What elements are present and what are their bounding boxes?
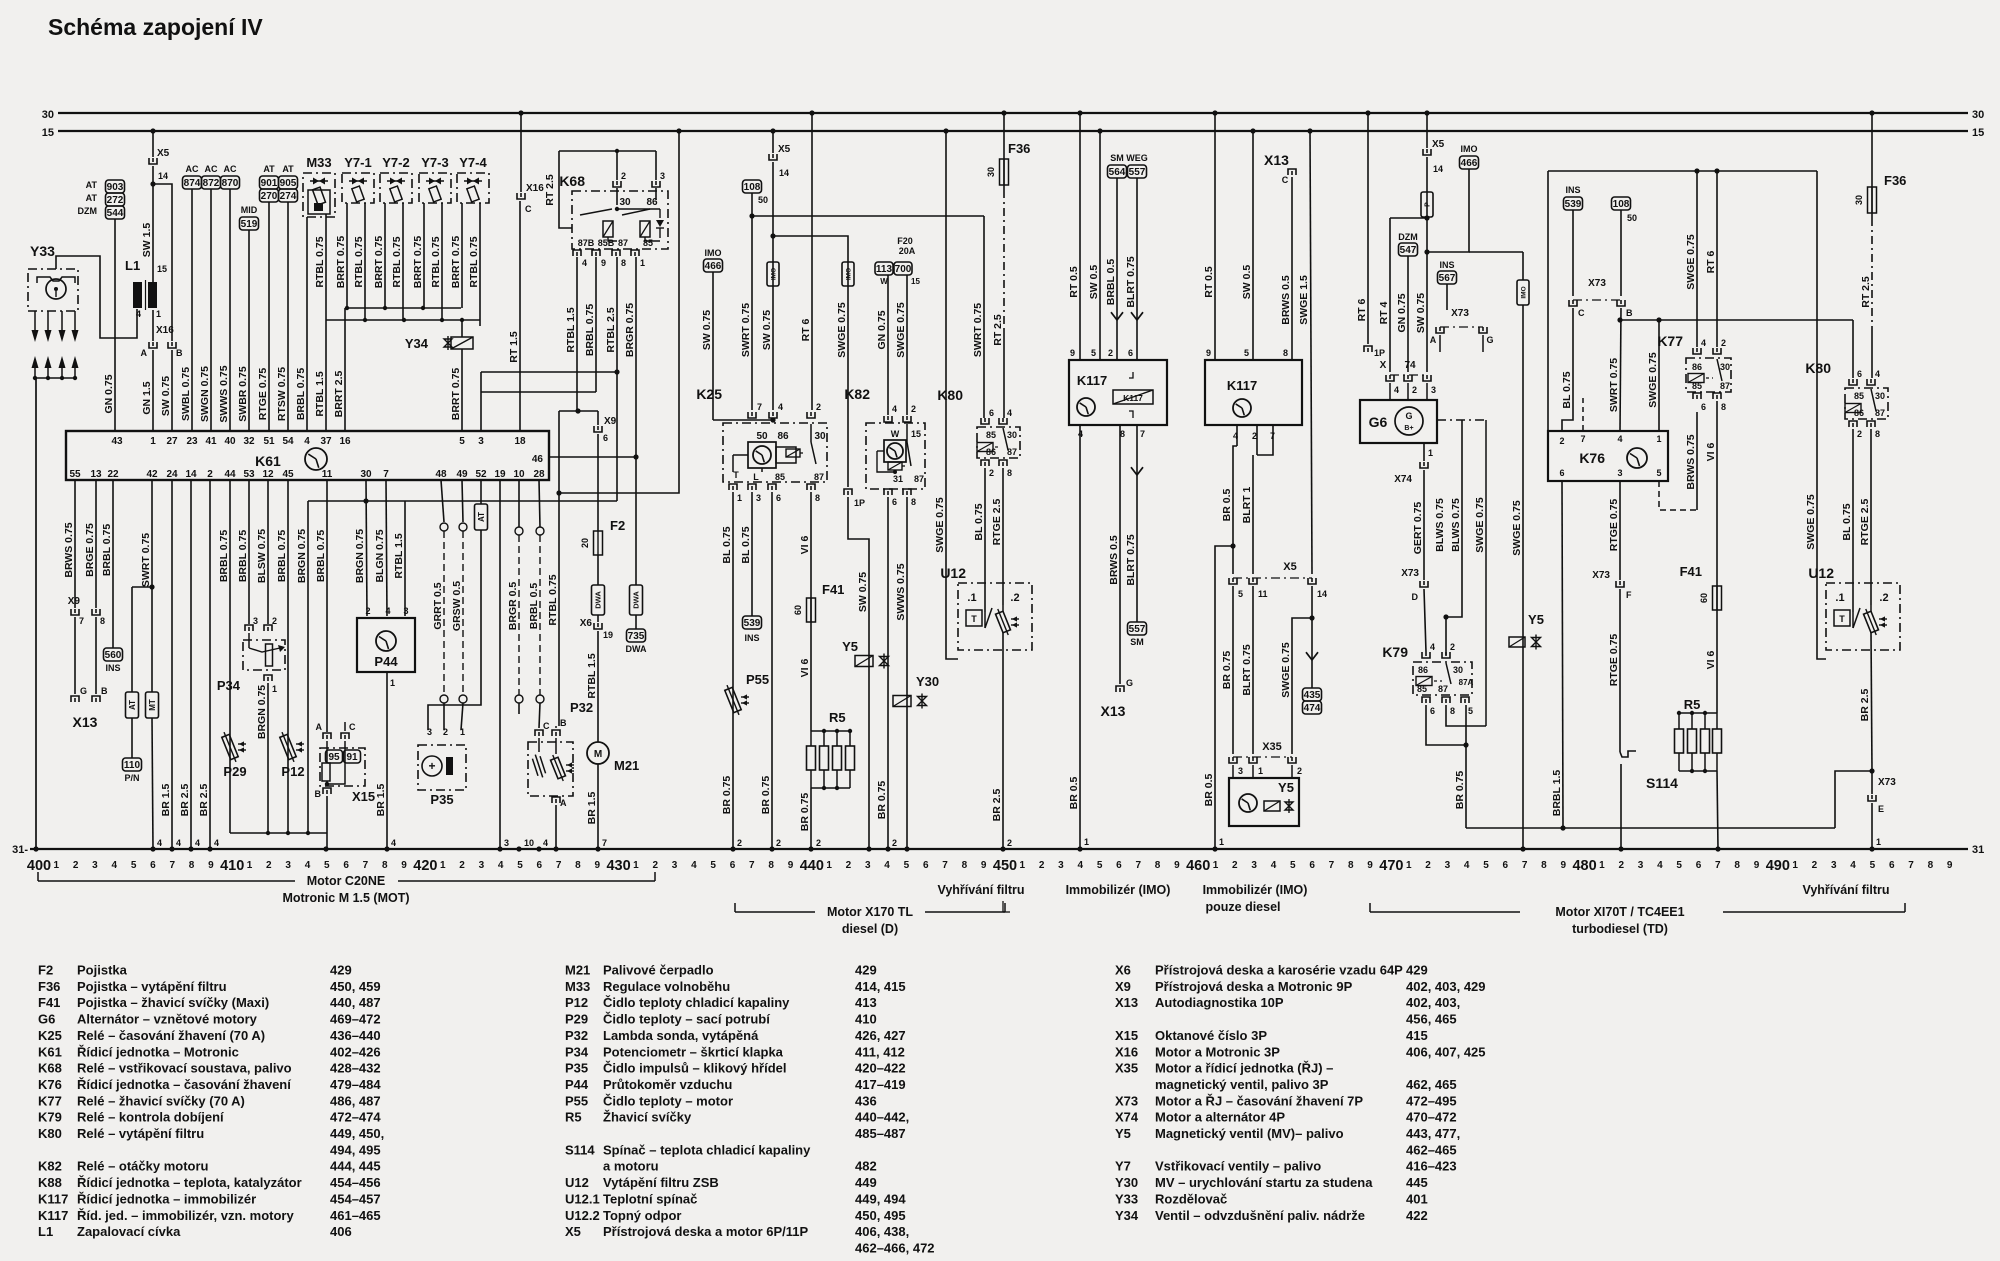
svg-text:8: 8 (1348, 860, 1354, 871)
svg-text:Relé – otáčky motoru: Relé – otáčky motoru (77, 1159, 209, 1174)
svg-text:8: 8 (189, 860, 195, 871)
svg-text:X73: X73 (1588, 278, 1606, 289)
svg-text:494, 495: 494, 495 (330, 1142, 381, 1157)
svg-text:7: 7 (1908, 860, 1914, 871)
svg-text:RTBL 1.5: RTBL 1.5 (586, 653, 598, 698)
svg-text:53: 53 (243, 469, 255, 480)
wire SWGE 0.75 through Y5 to track 477 (1522, 305, 1524, 849)
svg-text:A: A (1430, 335, 1437, 345)
svg-text:87: 87 (1875, 408, 1885, 418)
svg-text:450: 450 (993, 858, 1017, 874)
svg-text:BLGN 0.75: BLGN 0.75 (374, 529, 386, 582)
svg-text:1: 1 (1020, 860, 1026, 871)
svg-text:2: 2 (989, 468, 994, 478)
svg-text:Motor X170 TL: Motor X170 TL (827, 905, 913, 919)
svg-text:4: 4 (385, 606, 390, 616)
wire P32 A to track 427 (555, 805, 557, 849)
svg-text:9: 9 (788, 860, 794, 871)
svg-text:AC: AC (205, 164, 218, 174)
svg-text:416–423: 416–423 (1406, 1159, 1457, 1174)
svg-text:Y5: Y5 (1528, 612, 1544, 627)
svg-text:2: 2 (737, 838, 742, 848)
svg-text:Y7-4: Y7-4 (459, 155, 487, 170)
svg-text:406: 406 (330, 1224, 352, 1239)
svg-text:462–466, 472: 462–466, 472 (855, 1240, 935, 1255)
svg-text:54: 54 (282, 436, 294, 447)
svg-text:K80: K80 (937, 387, 963, 403)
svg-text:K117: K117 (1227, 378, 1257, 393)
svg-text:4: 4 (1430, 642, 1435, 652)
svg-text:P29: P29 (565, 1012, 588, 1027)
svg-text:BR 0.75: BR 0.75 (1221, 651, 1233, 690)
svg-text:50: 50 (758, 195, 768, 205)
svg-text:9: 9 (1367, 860, 1373, 871)
svg-text:4: 4 (214, 838, 219, 848)
svg-text:AT: AT (128, 700, 137, 710)
wire SWGE 1.5 bus15 to X5 (1310, 131, 1312, 574)
svg-text:C: C (525, 204, 532, 214)
svg-text:8: 8 (621, 258, 626, 268)
svg-text:SWGE 0.75: SWGE 0.75 (1647, 352, 1659, 408)
svg-text:7: 7 (757, 402, 762, 412)
svg-text:SWRT 0.75: SWRT 0.75 (740, 303, 752, 357)
svg-text:RTBL 0.75: RTBL 0.75 (468, 236, 480, 287)
node 108 50 left (743, 180, 762, 193)
svg-text:5: 5 (459, 436, 465, 447)
node DWA box left (597, 555, 599, 585)
svg-text:5: 5 (1468, 706, 1473, 716)
svg-text:95: 95 (328, 752, 340, 763)
connector X16 C (520, 113, 522, 192)
svg-text:3: 3 (1431, 385, 1436, 395)
svg-text:420–422: 420–422 (855, 1061, 906, 1076)
wire 108 to X73 B (1620, 210, 1622, 296)
svg-text:9: 9 (601, 258, 606, 268)
svg-text:X5: X5 (1432, 139, 1445, 150)
svg-text:87A: 87A (1459, 678, 1474, 687)
svg-text:DZM: DZM (1398, 232, 1418, 242)
svg-text:5: 5 (1483, 860, 1489, 871)
svg-text:Autodiagnostika 10P: Autodiagnostika 10P (1155, 995, 1284, 1010)
svg-text:6: 6 (537, 860, 543, 871)
svg-text:L1: L1 (38, 1224, 53, 1239)
connector X5 mid (772, 131, 774, 153)
svg-text:X5: X5 (565, 1224, 581, 1239)
svg-text:6: 6 (150, 860, 156, 871)
svg-text:8: 8 (382, 860, 388, 871)
svg-text:X35: X35 (1262, 741, 1282, 753)
svg-text:A: A (560, 798, 567, 808)
svg-text:AC: AC (186, 164, 199, 174)
svg-text:1: 1 (1258, 766, 1263, 776)
svg-text:Vyhřívání filtru: Vyhřívání filtru (1802, 883, 1889, 897)
net 31 ground bus (30, 848, 1968, 850)
svg-text:Motronic M 1.5 (MOT): Motronic M 1.5 (MOT) (282, 891, 409, 905)
svg-text:BRRT 0.75: BRRT 0.75 (450, 368, 462, 421)
svg-text:87: 87 (914, 474, 924, 484)
svg-text:410: 410 (855, 1012, 877, 1027)
wire rail 493 to bus 15 (559, 131, 679, 493)
svg-text:16: 16 (339, 436, 351, 447)
svg-text:4: 4 (1657, 860, 1663, 871)
svg-text:547: 547 (1400, 245, 1417, 256)
svg-text:Motor XI70T / TC4EE1: Motor XI70T / TC4EE1 (1555, 905, 1684, 919)
svg-text:SWBR 0.75: SWBR 0.75 (237, 366, 249, 422)
svg-text:+: + (428, 759, 435, 773)
svg-text:14: 14 (158, 171, 168, 181)
svg-text:X73: X73 (1401, 568, 1419, 579)
svg-text:415: 415 (1406, 1028, 1428, 1043)
svg-text:Rozdělovač: Rozdělovač (1155, 1191, 1227, 1206)
svg-text:K76: K76 (1579, 450, 1605, 466)
svg-text:450, 459: 450, 459 (330, 979, 381, 994)
svg-text:A: A (141, 348, 148, 358)
svg-text:IMO: IMO (845, 268, 852, 280)
wire branch 14 to X16 B (153, 184, 172, 341)
svg-text:P55: P55 (746, 672, 769, 687)
svg-text:2: 2 (459, 860, 465, 871)
wire injector RTBL bus (326, 319, 480, 321)
svg-text:WEG: WEG (1126, 153, 1148, 163)
svg-text:450, 495: 450, 495 (855, 1208, 906, 1223)
svg-text:5: 5 (324, 860, 330, 871)
svg-text:9: 9 (208, 860, 214, 871)
wire BRRT 2.5 bus to K61 pin 16 (344, 308, 346, 431)
svg-text:P35: P35 (565, 1061, 588, 1076)
svg-text:SM: SM (1110, 153, 1124, 163)
svg-text:GERT 0.75: GERT 0.75 (1412, 502, 1424, 555)
svg-text:G: G (80, 686, 87, 696)
svg-text:9: 9 (1947, 860, 1953, 871)
svg-text:86: 86 (1692, 362, 1702, 372)
svg-text:43: 43 (111, 436, 123, 447)
svg-text:U12: U12 (940, 565, 966, 581)
svg-text:Spínač – teplota chladicí kapa: Spínač – teplota chladicí kapaliny (603, 1142, 811, 1157)
svg-text:85: 85 (1417, 684, 1427, 694)
svg-text:K25: K25 (696, 386, 722, 402)
svg-text:272: 272 (107, 195, 124, 206)
svg-text:14: 14 (1317, 589, 1327, 599)
svg-text:564: 564 (1109, 167, 1126, 178)
svg-text:430: 430 (606, 858, 630, 874)
pin K68-8 wire RTBL 2.5 (612, 250, 620, 256)
wire K61 pin 52 through AT box (480, 480, 482, 504)
svg-text:8: 8 (1875, 429, 1880, 439)
svg-text:Topný odpor: Topný odpor (603, 1208, 681, 1223)
svg-text:410: 410 (220, 858, 244, 874)
svg-text:.1: .1 (1835, 592, 1844, 604)
svg-text:BRBL 0.75: BRBL 0.75 (237, 530, 249, 582)
svg-text:6: 6 (1889, 860, 1895, 871)
svg-text:BR 0.5: BR 0.5 (1068, 777, 1080, 810)
svg-text:1: 1 (1599, 860, 1605, 871)
svg-text:GN 1.5: GN 1.5 (141, 381, 153, 414)
svg-text:7: 7 (363, 860, 369, 871)
svg-text:454–457: 454–457 (330, 1191, 381, 1206)
svg-text:Pojistka: Pojistka (77, 963, 128, 978)
wire K61 pin 28 shielded BRBL (539, 480, 540, 527)
svg-text:2: 2 (1039, 860, 1045, 871)
svg-text:4: 4 (884, 860, 890, 871)
svg-text:P12: P12 (281, 764, 304, 779)
wire BR 1.5 K61 pin 24 (171, 480, 173, 849)
svg-text:406, 438,: 406, 438, (855, 1224, 909, 1239)
svg-text:435: 435 (1304, 690, 1321, 701)
svg-text:BLSW 0.75: BLSW 0.75 (256, 529, 268, 583)
svg-text:BLRT 0.75: BLRT 0.75 (1241, 644, 1253, 696)
svg-text:486, 487: 486, 487 (330, 1093, 381, 1108)
svg-text:Motor a ŘJ – časování žhavení: Motor a ŘJ – časování žhavení 7P (1155, 1093, 1363, 1108)
svg-text:1: 1 (633, 860, 639, 871)
svg-text:W: W (891, 429, 900, 439)
svg-text:15: 15 (157, 264, 167, 274)
svg-text:BRGR 0.5: BRGR 0.5 (507, 582, 519, 631)
svg-text:RTBL 2.5: RTBL 2.5 (605, 307, 617, 352)
svg-text:BL 0.75: BL 0.75 (721, 526, 733, 563)
wire BLSW 0.75 K61 pin 12 to P34 (267, 480, 269, 624)
svg-text:INS: INS (105, 663, 120, 673)
svg-text:Řídicí jednotka – Motronic: Řídicí jednotka – Motronic (77, 1044, 239, 1059)
svg-text:RTGE 2.5: RTGE 2.5 (1859, 499, 1871, 546)
temperature sensor P29 (220, 731, 239, 764)
svg-text:6: 6 (1701, 402, 1706, 412)
svg-text:GN 0.75: GN 0.75 (876, 310, 888, 349)
svg-text:Přístrojová deska a Motronic 9: Přístrojová deska a Motronic 9P (1155, 979, 1353, 994)
svg-text:31: 31 (1972, 844, 1984, 856)
svg-text:P34: P34 (565, 1044, 589, 1059)
svg-text:Zapalovací cívka: Zapalovací cívka (77, 1224, 181, 1239)
svg-text:55: 55 (69, 469, 81, 480)
node IMO tag on wire 773 (767, 262, 779, 286)
svg-text:3: 3 (660, 171, 665, 181)
svg-text:108: 108 (1613, 199, 1630, 210)
svg-text:SW 1.5: SW 1.5 (141, 223, 153, 258)
svg-text:RT 1.5: RT 1.5 (508, 331, 520, 363)
svg-text:87: 87 (1720, 381, 1730, 391)
svg-text:Y5: Y5 (1278, 780, 1294, 795)
svg-text:7: 7 (1580, 434, 1585, 444)
immobilizer unit K117 (1069, 360, 1167, 425)
node IMO tag right (1517, 280, 1529, 305)
svg-text:IMO: IMO (1461, 144, 1478, 154)
svg-text:30: 30 (986, 167, 996, 177)
svg-text:3: 3 (756, 493, 761, 503)
wire SWGN 0.75 to K61 pin 41 (210, 189, 212, 431)
svg-text:VI 6: VI 6 (799, 659, 811, 678)
node 110 P/N (131, 718, 133, 758)
svg-text:1: 1 (272, 684, 277, 694)
svg-text:BRBL 0.75: BRBL 0.75 (584, 304, 596, 356)
svg-text:30: 30 (1854, 195, 1864, 205)
svg-text:8: 8 (100, 616, 105, 626)
svg-text:Relé – vstřikovací soustava, p: Relé – vstřikovací soustava, palivo (77, 1061, 292, 1076)
node 435 474 (1303, 688, 1322, 701)
svg-text:461–465: 461–465 (330, 1208, 381, 1223)
wire GN 0.75 to K82 pin 4 (887, 275, 889, 415)
svg-text:8: 8 (1928, 860, 1934, 871)
svg-text:1: 1 (247, 860, 253, 871)
svg-text:DWA: DWA (632, 591, 641, 609)
wire BLRT 1 K117 to X5 (1256, 425, 1258, 455)
svg-text:BL 0.75: BL 0.75 (1561, 371, 1573, 408)
svg-text:F41: F41 (38, 995, 60, 1010)
svg-text:41: 41 (205, 436, 217, 447)
wire BLGN 0.75 K61 pin 7 to P44 (386, 480, 387, 616)
svg-text:R5: R5 (1684, 697, 1701, 712)
svg-text:7: 7 (383, 469, 389, 480)
svg-text:Y7-3: Y7-3 (421, 155, 448, 170)
wire ground bus under sensors (230, 832, 327, 834)
svg-text:Y5: Y5 (1115, 1126, 1131, 1141)
svg-text:X13: X13 (1101, 703, 1126, 719)
connector X73 E (1871, 771, 1873, 794)
control unit K76 (1548, 431, 1668, 481)
svg-text:K88: K88 (38, 1175, 62, 1190)
svg-text:2: 2 (1450, 642, 1455, 652)
svg-text:30: 30 (360, 469, 372, 480)
svg-text:18: 18 (514, 436, 526, 447)
svg-text:F36: F36 (38, 979, 60, 994)
svg-text:X13: X13 (1264, 152, 1289, 168)
svg-text:E: E (1878, 804, 1884, 814)
pin K68-2 (613, 181, 621, 187)
svg-text:50: 50 (756, 431, 768, 442)
svg-text:8: 8 (1541, 860, 1547, 871)
wire rail to K80 SWRT (752, 215, 984, 217)
svg-text:454–456: 454–456 (330, 1175, 381, 1190)
svg-text:1: 1 (440, 860, 446, 871)
svg-text:Říd. jed. – immobilizér, vzn.: Říd. jed. – immobilizér, vzn. motory (77, 1208, 294, 1223)
svg-text:436: 436 (855, 1093, 877, 1108)
svg-text:9: 9 (594, 860, 600, 871)
svg-text:440–442,: 440–442, (855, 1110, 909, 1125)
svg-text:7: 7 (1715, 860, 1721, 871)
svg-text:30: 30 (619, 197, 631, 208)
svg-text:SWGE 0.75: SWGE 0.75 (934, 497, 946, 553)
svg-text:BRRT 2.5: BRRT 2.5 (333, 371, 345, 418)
svg-text:449, 494: 449, 494 (855, 1191, 906, 1206)
svg-text:BR 0.75: BR 0.75 (799, 793, 811, 832)
wire BRGN 0.75 rail to ground bus (307, 501, 309, 833)
svg-text:Y5: Y5 (842, 639, 858, 654)
svg-text:3: 3 (865, 860, 871, 871)
svg-text:3: 3 (1251, 860, 1257, 871)
svg-text:6: 6 (989, 408, 994, 418)
svg-text:X6: X6 (580, 618, 593, 629)
svg-text:Čidlo teploty chladicí kapalin: Čidlo teploty chladicí kapaliny (603, 995, 790, 1010)
svg-text:24: 24 (166, 469, 178, 480)
svg-text:3: 3 (427, 727, 432, 737)
svg-text:SWRT 0.75: SWRT 0.75 (140, 533, 152, 587)
wire BLRT 0.75 to K117 (1136, 178, 1138, 360)
svg-text:6: 6 (730, 860, 736, 871)
pin K68-3 (652, 181, 660, 187)
svg-text:91: 91 (346, 752, 358, 763)
wire BRRT 0.75 Y7-1 (346, 203, 348, 308)
svg-text:SM: SM (1130, 637, 1144, 647)
svg-text:60: 60 (1699, 593, 1709, 603)
svg-text:AT: AT (263, 164, 275, 174)
wire SWWS 0.75 to K61 pin 40 (229, 189, 231, 431)
wire IMO 466 to junction (1427, 169, 1469, 252)
svg-text:RTGE 2.5: RTGE 2.5 (991, 499, 1003, 546)
svg-text:Řídicí jednotka – teplota, kat: Řídicí jednotka – teplota, katalyzátor (77, 1175, 302, 1190)
wire K79 pin 8 to SWGE (1446, 705, 1486, 726)
svg-text:557: 557 (1129, 624, 1146, 635)
svg-text:SW 0.5: SW 0.5 (1241, 265, 1253, 300)
svg-text:8: 8 (575, 860, 581, 871)
svg-text:AT: AT (282, 164, 294, 174)
wire SWGE rail to K80 right (1620, 319, 1853, 321)
svg-text:K117: K117 (38, 1191, 68, 1206)
svg-text:9: 9 (1754, 860, 1760, 871)
svg-text:AT: AT (86, 193, 98, 203)
svg-text:2: 2 (1559, 436, 1564, 446)
svg-text:VI 6: VI 6 (1705, 443, 1717, 462)
wire K61 pin 19 to track 424 (499, 480, 501, 849)
svg-text:BRBL 0.75: BRBL 0.75 (315, 530, 327, 582)
wire SW 0.5 bus15 to K117 diesel (1252, 131, 1254, 360)
wire RTBL 0.75 Y7-4 (479, 203, 481, 320)
svg-text:7: 7 (556, 860, 562, 871)
wire rail 411 to X9 (559, 410, 598, 412)
svg-text:.2: .2 (1879, 592, 1888, 604)
svg-text:20A: 20A (899, 246, 916, 256)
svg-text:RTBL 1.5: RTBL 1.5 (314, 371, 326, 416)
wire SWRT 0.75 to K25 pin 7 (751, 193, 753, 410)
svg-text:28: 28 (533, 469, 545, 480)
svg-text:K79: K79 (38, 1110, 62, 1125)
wire BRBL 1.5 K76 pin 6 (1562, 481, 1563, 828)
svg-text:X16: X16 (526, 183, 544, 194)
svg-text:5: 5 (710, 860, 716, 871)
svg-text:BR 2.5: BR 2.5 (1859, 689, 1871, 722)
svg-text:1: 1 (1213, 860, 1219, 871)
wire SWGE 0.75 to K76 pin 1 (1658, 320, 1660, 431)
wire SWGE 0.75 rail to U12 right (1817, 171, 1826, 659)
svg-text:X5: X5 (157, 148, 170, 159)
wire K25-6 to ground (771, 492, 773, 849)
svg-text:50: 50 (1627, 213, 1637, 223)
wire BR 0.75 R5 to track 440 (810, 788, 812, 849)
wire BR 0.75 X5 to X35 (1232, 586, 1234, 754)
svg-text:Relé – žhavicí svíčky (70 A): Relé – žhavicí svíčky (70 A) (77, 1093, 245, 1108)
svg-text:443, 477,: 443, 477, (1406, 1126, 1460, 1141)
svg-text:4: 4 (136, 309, 141, 319)
svg-text:BR 0.5: BR 0.5 (1203, 774, 1215, 807)
wire SWBR 0.75 to K61 pin 32 (248, 230, 250, 431)
svg-text:Y7-2: Y7-2 (382, 155, 409, 170)
svg-text:901: 901 (261, 178, 278, 189)
svg-text:9: 9 (1206, 348, 1211, 358)
svg-text:RTGE 0.75: RTGE 0.75 (257, 368, 269, 421)
svg-text:402–426: 402–426 (330, 1044, 381, 1059)
svg-text:420: 420 (413, 858, 437, 874)
wire BRWS 0.75 K61 pin 55 (74, 480, 76, 608)
svg-text:4: 4 (195, 838, 200, 848)
svg-text:VI 6: VI 6 (799, 536, 811, 555)
svg-text:7: 7 (602, 838, 607, 848)
wire RT 6 bus30 to 1P (1367, 113, 1369, 344)
svg-text:2: 2 (1412, 385, 1417, 395)
svg-text:5: 5 (517, 860, 523, 871)
svg-text:G6: G6 (1369, 414, 1388, 430)
svg-text:270: 270 (261, 191, 278, 202)
svg-text:8: 8 (815, 493, 820, 503)
svg-text:M33: M33 (565, 979, 590, 994)
svg-text:20: 20 (580, 538, 590, 548)
svg-text:turbodiesel (TD): turbodiesel (TD) (1572, 922, 1668, 936)
